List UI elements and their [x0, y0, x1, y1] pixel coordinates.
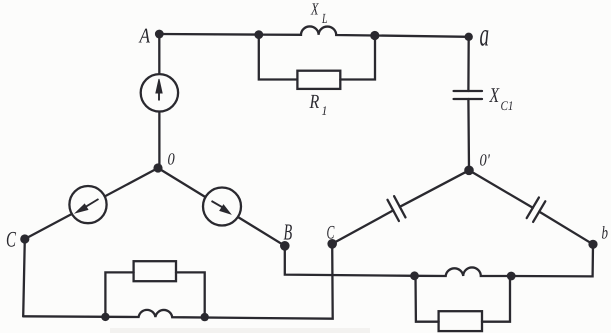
- bottom-left resistor right lead: [176, 272, 205, 317]
- junction top-right: [370, 31, 379, 40]
- label B: [284, 224, 292, 239]
- label XL L sub: [322, 14, 327, 23]
- wire R1 right lead: [340, 36, 375, 80]
- wire O to C diagonal: [25, 168, 158, 239]
- wire B down and right: [285, 246, 415, 276]
- node A: [155, 30, 164, 39]
- junction top-left: [254, 30, 263, 39]
- wire a down to capacitor XC1: [467, 37, 470, 91]
- label R1 R: [309, 95, 319, 108]
- node a: [465, 33, 473, 41]
- wire top-right junction to a: [375, 36, 469, 37]
- label C left: [7, 232, 16, 247]
- bottom-right resistor branch: [416, 276, 439, 322]
- label c mid: [327, 226, 334, 239]
- capacitor XC1: [454, 91, 482, 99]
- bottom-right resistor: [439, 311, 482, 331]
- node c: [327, 239, 337, 249]
- node b: [588, 240, 597, 249]
- wire C down to bottom: [23, 239, 25, 316]
- inductor XL: [259, 26, 375, 35]
- wire O' to b diagonal (capacitor gap): [469, 170, 593, 244]
- bottom-left resistor branch: [105, 272, 133, 317]
- bottom-left resistor: [134, 261, 176, 281]
- ammeter source circle pA: [141, 74, 178, 111]
- junction bottom-left-1: [101, 313, 109, 321]
- label XC1 X: [489, 88, 500, 102]
- label a: [480, 30, 488, 46]
- wire O' to c diagonal (capacitor gap): [332, 170, 469, 244]
- wire A down to source: [158, 34, 160, 168]
- junction bottom-right-2: [507, 272, 516, 281]
- node C: [20, 234, 29, 243]
- resistor R1 branch: [259, 35, 298, 80]
- capacitor in O'-c branch: [388, 196, 406, 221]
- ammeter right circle pB: [203, 188, 241, 226]
- label R1 1 sub: [322, 106, 326, 115]
- ammeter left circle pC: [69, 186, 106, 223]
- node O: [153, 163, 162, 172]
- resistor R1: [297, 71, 340, 89]
- node O': [464, 166, 474, 176]
- label A: [139, 29, 151, 43]
- source arrow: [76, 79, 231, 214]
- wire bottom-right to b: [511, 244, 593, 276]
- junction bottom-right-1: [410, 271, 419, 280]
- node B: [280, 241, 290, 251]
- faint scan smudge bottom: [110, 328, 370, 333]
- label XL X: [311, 3, 319, 14]
- right meter arrow: [212, 201, 225, 208]
- left meter arrow: [84, 199, 99, 208]
- wire XC1 to O': [467, 99, 470, 170]
- bottom-right resistor right lead: [482, 276, 510, 322]
- wire O to B diagonal: [158, 168, 285, 246]
- junction bottom-left-2: [201, 313, 209, 321]
- bottom-left inductor branch: [23, 244, 333, 319]
- wire A to top-left junction: [159, 33, 258, 36]
- label O': [480, 154, 486, 165]
- capacitor in O'-b branch: [527, 198, 546, 222]
- bottom-right inductor: [415, 267, 512, 276]
- label XC1 C1 sub: [501, 101, 508, 110]
- label b: [602, 226, 608, 239]
- label O: [168, 153, 174, 164]
